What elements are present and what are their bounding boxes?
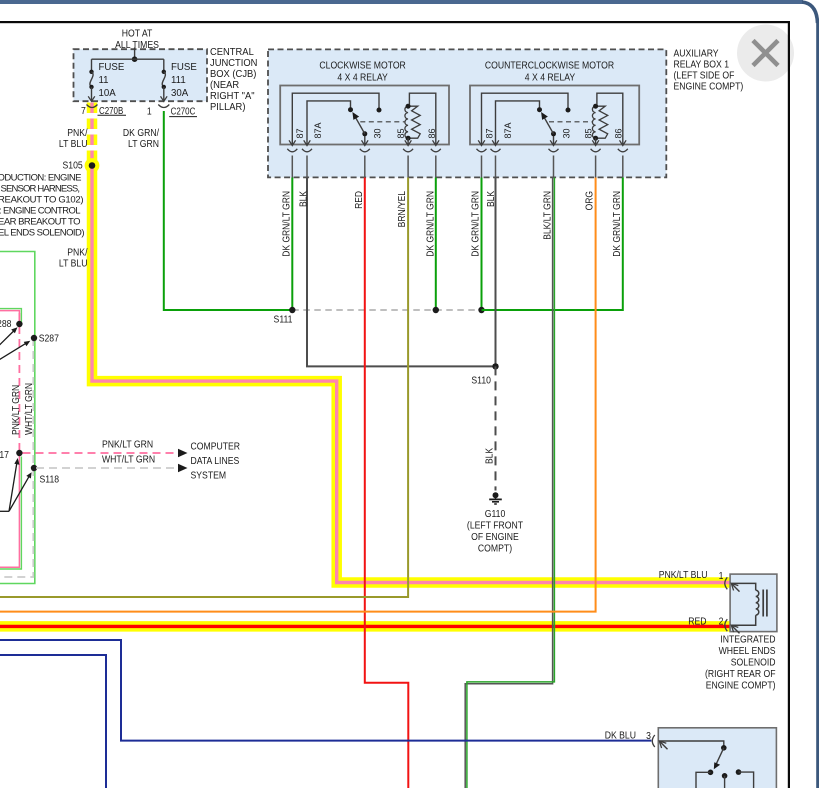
svg-text:ODUCTION: ENGINE: ODUCTION: ENGINE	[0, 173, 82, 184]
wire BLK relay U1 pin 87A to S110	[307, 178, 496, 367]
page top bar	[0, 0, 803, 4]
svg-text:WHEEL ENDS: WHEEL ENDS	[719, 645, 776, 657]
relay U1 armature-coil dashed link	[360, 121, 405, 123]
svg-text:ENGINE COMPT): ENGINE COMPT)	[674, 81, 744, 93]
svg-text:10A: 10A	[99, 88, 117, 99]
4x4 shift motor box (bottom right, cut off)	[658, 728, 776, 788]
svg-text:1: 1	[147, 106, 152, 118]
wire label PNK/LT BLU lower	[59, 247, 88, 270]
wire BLK/LT GRN relay U2 pin 30 green stripe	[467, 178, 555, 788]
splice junction dot	[478, 307, 484, 313]
svg-text:2: 2	[719, 616, 724, 628]
svg-text:(NEAR: (NEAR	[210, 80, 239, 91]
svg-text:FUSE: FUSE	[99, 62, 125, 73]
relay U2 connector arcs	[477, 149, 628, 152]
ground label G110	[467, 508, 523, 554]
svg-text:REAKOUT TO G102): REAKOUT TO G102)	[0, 195, 84, 206]
junction node in CJB	[132, 56, 138, 62]
svg-text:111: 111	[171, 75, 186, 86]
computer data lines system text	[191, 441, 241, 482]
relay U1 coil	[405, 104, 420, 141]
svg-text:87A: 87A	[313, 122, 323, 139]
shift motor switch pivot	[721, 745, 727, 751]
CJB internal bus wire	[92, 58, 164, 60]
svg-text:C270B: C270B	[99, 105, 123, 116]
counterclockwise motor 4x4 relay U2	[470, 60, 639, 145]
svg-text:LT BLU: LT BLU	[59, 138, 88, 150]
pointer arrow to S287	[0, 341, 30, 361]
highlighted wire PNK/LT BLU (yellow marker) dashed segment C270B to S105	[87, 103, 98, 163]
shift motor internal wire from pin 3	[659, 741, 724, 746]
svg-text:DK BLU: DK BLU	[605, 730, 636, 742]
svg-text:ORG: ORG	[584, 191, 595, 210]
svg-text:PNK/LT GRN: PNK/LT GRN	[10, 385, 21, 435]
relay U2 pin 87A internal wire	[496, 101, 540, 145]
relay U2 pin 85 internal wire	[595, 138, 597, 144]
CJB name text	[210, 47, 257, 113]
svg-text:S288: S288	[0, 318, 12, 330]
rotated wire labels under relay U2	[470, 190, 622, 256]
svg-text:1: 1	[719, 570, 724, 582]
node S110	[492, 363, 498, 369]
svg-text:DK GRN/LT GRN: DK GRN/LT GRN	[281, 191, 292, 257]
svg-text:86: 86	[613, 128, 623, 138]
page border top	[0, 21, 790, 23]
svg-text:S117: S117	[0, 449, 9, 461]
window rounded top-right corner	[802, 2, 818, 23]
wire BRN/YEL relay U1 pin 85 (off page left)	[0, 178, 408, 598]
computer data lines triangle 1	[178, 449, 188, 458]
svg-text:87: 87	[295, 128, 305, 138]
svg-text:DK GRN/LT GRN: DK GRN/LT GRN	[470, 191, 481, 257]
splice junction dot	[433, 307, 439, 313]
svg-text:30: 30	[372, 128, 382, 138]
relay U2 pin number labels	[484, 122, 623, 139]
wire RED relay U1 pin 30 (off page bottom)	[365, 178, 409, 788]
svg-text:86: 86	[427, 128, 437, 138]
wire DK GRN/LT GRN from fuse 111 C270C	[164, 111, 292, 310]
svg-text:87: 87	[484, 128, 494, 138]
svg-text:S118: S118	[40, 474, 60, 486]
svg-text:RIGHT "A": RIGHT "A"	[210, 91, 255, 102]
svg-text:COMPUTER: COMPUTER	[191, 441, 241, 453]
node S287	[31, 335, 37, 341]
svg-text:BOX (CJB): BOX (CJB)	[210, 69, 256, 80]
relay U2 switch armature from pin 30	[541, 112, 556, 145]
node S288	[16, 321, 22, 327]
svg-text:4 X 4 RELAY: 4 X 4 RELAY	[525, 72, 576, 84]
wire DK GRN/LT GRN relay U1 pin 86 to splice	[435, 178, 437, 311]
shift motor contact A	[696, 770, 713, 788]
shift motor pin 3 connector arc	[652, 735, 655, 747]
svg-text:30A: 30A	[171, 88, 189, 99]
svg-text:11: 11	[99, 75, 110, 86]
pointer stub for S117/S118 arrows	[0, 510, 9, 512]
relay U2 pin exit arrows	[478, 140, 626, 145]
svg-text:WHT/LT GRN: WHT/LT GRN	[23, 383, 34, 435]
wire WHT/LT GRN dashed S287 to S118 and below	[0, 338, 33, 577]
svg-text:JUNCTION: JUNCTION	[210, 58, 257, 69]
wire DK BLU branch (off page bottom)	[0, 655, 106, 788]
svg-text:CLOCKWISE MOTOR: CLOCKWISE MOTOR	[319, 60, 406, 72]
auxiliary relay box 1	[268, 49, 666, 177]
inner pink box outline (cut off)	[0, 311, 19, 568]
svg-text:OF ENGINE: OF ENGINE	[471, 531, 519, 543]
inner green outline (cut off)	[0, 309, 21, 569]
svg-text:7: 7	[81, 105, 86, 117]
svg-text:LT BLU: LT BLU	[59, 258, 88, 270]
auxiliary relay box 1 name text	[674, 48, 744, 93]
wire BLK/LT GRN relay U2 pin 30 (off page bottom) black stripe	[465, 178, 552, 788]
relay U2 fixed contact 87	[566, 108, 571, 113]
svg-text:PILLAR): PILLAR)	[210, 102, 245, 113]
wire PNK/LT GRN dashed to computer data lines	[23, 452, 178, 454]
relay U1 pin 86 internal wire	[409, 93, 435, 144]
solenoid coil L1	[731, 583, 759, 625]
svg-text:DATA LINES: DATA LINES	[191, 456, 240, 468]
solenoid pin 2 connector arc	[725, 619, 728, 631]
wire BLK dashed S110 to ground G110	[495, 366, 497, 490]
central junction box CJB	[74, 49, 208, 101]
ground G110	[489, 492, 502, 504]
svg-text:: ENGINE CONTROL: : ENGINE CONTROL	[0, 206, 81, 217]
connector arc pin 7 C270B	[87, 105, 98, 108]
svg-text:S105: S105	[62, 160, 82, 172]
node S111	[289, 307, 295, 313]
relay U1 switch armature from pin 30	[352, 112, 367, 145]
wire BLK relay U2 pin 87A to S110	[495, 178, 497, 367]
rotated wire labels under relay U1	[281, 190, 436, 256]
node S118	[31, 465, 37, 471]
svg-text:BLK/LT GRN: BLK/LT GRN	[542, 191, 553, 240]
clockwise motor 4x4 relay U1	[280, 60, 449, 145]
relay U2 pin 86 internal wire	[597, 93, 623, 144]
svg-text:S287: S287	[39, 333, 59, 345]
svg-text:BRN/YEL: BRN/YEL	[396, 191, 407, 227]
svg-text:WHT/LT GRN: WHT/LT GRN	[102, 454, 155, 466]
pointer arrow to S288	[0, 327, 18, 346]
relay U1 pin number labels	[295, 122, 437, 139]
wire WHT/LT GRN dashed to computer data lines	[36, 467, 178, 469]
solenoid pin 1 entry arrow	[731, 583, 739, 591]
svg-text:BLK: BLK	[484, 447, 495, 464]
node S117	[16, 450, 22, 456]
svg-text:SOLENOID: SOLENOID	[731, 657, 776, 669]
solenoid pin 1 connector arc	[725, 577, 728, 589]
svg-text:4 X 4 RELAY: 4 X 4 RELAY	[337, 72, 388, 84]
window right edge band	[816, 22, 819, 788]
svg-text:ENGINE COMPT): ENGINE COMPT)	[706, 680, 776, 692]
svg-text:DK GRN/LT GRN: DK GRN/LT GRN	[425, 191, 436, 257]
highlighted wire RED to wheel-ends solenoid pin 2	[0, 621, 730, 632]
relay U1 pin stubs to aux box edge	[292, 156, 436, 178]
wire ORG relay U2 pin 85 (off page left)	[0, 178, 596, 612]
svg-text:EAR BREAKOUT TO: EAR BREAKOUT TO	[0, 217, 81, 228]
shift motor pin 3 entry arrow	[659, 741, 667, 749]
svg-text:EL ENDS SOLENOID): EL ENDS SOLENOID)	[0, 228, 85, 239]
relay U1 pin 87A internal wire	[307, 101, 351, 145]
node S105 highlight ring	[85, 158, 100, 173]
svg-text:(LEFT FRONT: (LEFT FRONT	[467, 520, 523, 532]
svg-text:RED: RED	[353, 191, 364, 209]
solenoid core bars	[763, 590, 767, 617]
wire DK GRN/LT GRN relay U2 pin 87 to splice	[481, 178, 483, 311]
relay U1 pin exit arrows	[289, 140, 439, 145]
svg-text:INTEGRATED: INTEGRATED	[720, 634, 775, 646]
svg-text:PNK/LT GRN: PNK/LT GRN	[102, 439, 153, 451]
svg-text:85: 85	[396, 128, 406, 138]
hot at all times feed	[115, 28, 159, 59]
close button X	[737, 25, 794, 82]
svg-text:LT GRN: LT GRN	[128, 138, 159, 150]
solenoid name text	[705, 634, 776, 692]
svg-text:C270C: C270C	[171, 105, 196, 116]
pointer arrow to S117	[9, 458, 20, 511]
relay U2 pin stubs to aux box edge	[482, 156, 623, 178]
svg-text:S111: S111	[274, 314, 293, 326]
connector arc pin 1 C270C	[158, 105, 169, 108]
node S105 dot	[89, 162, 96, 169]
svg-text:HOT AT: HOT AT	[122, 28, 153, 40]
fuse 11 10A	[88, 59, 124, 101]
shift motor switch armature	[714, 748, 724, 770]
production note text (cut off at left)	[0, 173, 85, 239]
relay U1 pin 85 internal wire	[407, 138, 409, 144]
svg-text:PNK/LT BLU: PNK/LT BLU	[659, 569, 708, 581]
relay U2 coil	[592, 104, 607, 141]
wire DK BLU to shift motor pin 3	[0, 640, 651, 741]
svg-text:CENTRAL: CENTRAL	[210, 47, 254, 58]
svg-text:BLK: BLK	[485, 190, 496, 207]
relay U1 fixed contact 87	[377, 108, 382, 113]
integrated wheel ends solenoid box	[730, 574, 777, 632]
computer data lines triangle 2	[178, 464, 188, 473]
connector C270C label	[169, 105, 197, 116]
relay U2 contact 87A	[537, 107, 542, 112]
svg-text:FUSE: FUSE	[171, 62, 197, 73]
svg-text:RED: RED	[688, 616, 706, 628]
shift motor contact C	[736, 769, 754, 788]
highlighted wire PNK/LT BLU solid run S105 to wheel-ends solenoid pin 1	[92, 168, 730, 583]
svg-text:SYSTEM: SYSTEM	[191, 470, 227, 482]
engine control module green box (cut off at left)	[0, 252, 35, 584]
solenoid pin 2 entry arrow	[731, 625, 739, 633]
svg-text:DK GRN/LT GRN: DK GRN/LT GRN	[611, 191, 622, 257]
page border right	[788, 21, 790, 788]
svg-text:3: 3	[646, 730, 651, 742]
shift motor contact B	[722, 773, 728, 788]
svg-text:COUNTERCLOCKWISE MOTOR: COUNTERCLOCKWISE MOTOR	[485, 60, 614, 72]
wire label DK GRN/LT GRN upper	[123, 127, 159, 150]
wire PNK/LT GRN dashed S288 to S117	[18, 313, 20, 453]
relay U1 contact 87A	[348, 107, 353, 112]
wire DK GRN/LT GRN relay U2 pin 86 to splice	[482, 178, 623, 311]
svg-text:G110: G110	[485, 508, 506, 520]
relay U2 pin 87 internal wire	[482, 93, 569, 144]
svg-text:85: 85	[583, 128, 593, 138]
svg-text:ALL TIMES: ALL TIMES	[115, 39, 159, 51]
svg-text:SENSOR HARNESS,: SENSOR HARNESS,	[1, 184, 81, 195]
relay U1 connector arcs	[287, 149, 441, 152]
relay U2 armature-coil dashed link	[549, 121, 593, 123]
splice S111 dashed bus	[292, 309, 481, 311]
svg-text:COMPT): COMPT)	[478, 543, 512, 555]
wire label PNK/LT BLU upper	[59, 127, 88, 150]
pointer arrow to S118	[9, 472, 32, 511]
fuse 111 30A	[161, 59, 198, 101]
svg-text:87A: 87A	[503, 122, 513, 139]
svg-text:30: 30	[561, 128, 571, 138]
svg-text:S110: S110	[471, 375, 491, 387]
svg-text:(RIGHT REAR OF: (RIGHT REAR OF	[705, 668, 776, 680]
wire DK GRN/LT GRN relay U1 pin 87	[291, 178, 293, 311]
connector C270B label	[98, 105, 127, 116]
relay U1 pin 87 internal wire	[292, 93, 379, 144]
svg-text:BLK: BLK	[298, 190, 309, 207]
